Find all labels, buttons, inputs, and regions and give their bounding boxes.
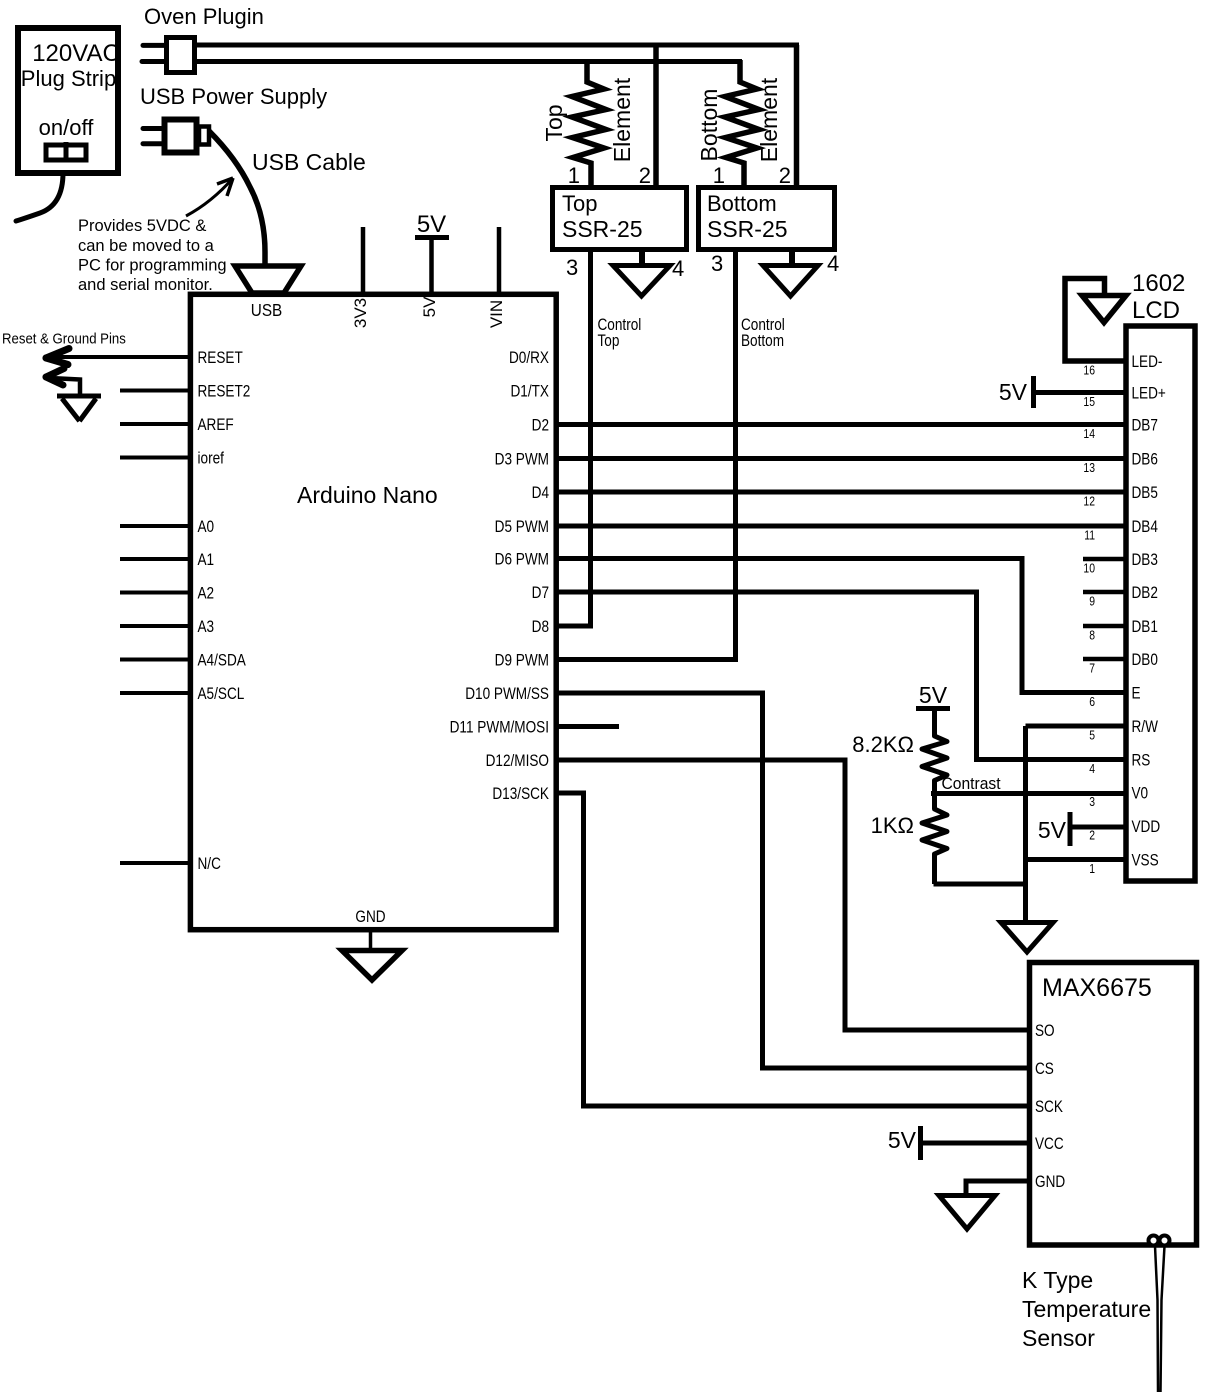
annotation arrow to USB cable — [186, 178, 233, 216]
LCD pin 8 number — [1089, 628, 1095, 642]
pin 3V3 — [351, 227, 370, 328]
wire D13 to MAX6675 SCK — [556, 793, 1032, 1106]
Top SSR pin 4 ground — [613, 250, 670, 296]
svg-text:8.2KΩ: 8.2KΩ — [852, 732, 914, 757]
svg-text:Provides 5VDC &: Provides 5VDC & — [78, 217, 206, 235]
MAX6675 pin label VCC — [1035, 1135, 1064, 1154]
svg-text:Plug Strip: Plug Strip — [21, 66, 116, 91]
svg-text:LED+: LED+ — [1132, 384, 1166, 403]
svg-text:10: 10 — [1083, 561, 1095, 575]
svg-text:D13/SCK: D13/SCK — [492, 785, 549, 804]
wire D10 to MAX6675 CS — [556, 693, 1032, 1068]
svg-text:12: 12 — [1083, 494, 1095, 508]
wire D9 to Bottom SSR pin 3 control — [556, 250, 736, 660]
LCD pin label E — [1132, 684, 1141, 703]
LCD pin 9 stub DB2 — [1083, 590, 1128, 595]
svg-text:A5/SCL: A5/SCL — [198, 685, 245, 704]
Top SSR pin number 1 — [568, 163, 580, 188]
svg-text:5: 5 — [1089, 728, 1095, 742]
svg-text:A2: A2 — [198, 584, 215, 603]
pin VIN — [487, 227, 506, 328]
svg-text:9: 9 — [1089, 594, 1095, 608]
svg-text:5V: 5V — [1038, 817, 1067, 843]
ground bus vertical R/W VSS — [1026, 726, 1129, 922]
svg-text:R/W: R/W — [1132, 718, 1159, 737]
svg-text:SO: SO — [1035, 1022, 1055, 1041]
pin D2 label — [532, 416, 549, 435]
svg-text:DB7: DB7 — [1132, 416, 1158, 435]
svg-text:D7: D7 — [532, 584, 549, 603]
USB power supply plug — [143, 120, 209, 153]
on/off switch — [46, 142, 86, 162]
pin A2 — [120, 584, 214, 603]
svg-text:1602: 1602 — [1132, 270, 1185, 297]
pin D8 label — [532, 618, 549, 637]
svg-text:GND: GND — [1035, 1173, 1065, 1192]
LCD pin 12 number — [1083, 494, 1095, 508]
MAX6675 ground symbol — [939, 1196, 995, 1230]
svg-text:A3: A3 — [198, 618, 215, 637]
LCD box — [1126, 326, 1195, 881]
Top SSR pin 2 wire — [653, 45, 659, 187]
GND pin label — [355, 908, 385, 949]
svg-text:AREF: AREF — [198, 416, 234, 435]
svg-text:14: 14 — [1083, 427, 1095, 441]
pin AREF — [120, 416, 234, 435]
LCD pin label R/W — [1132, 718, 1159, 737]
svg-text:DB2: DB2 — [1132, 584, 1158, 603]
svg-text:3: 3 — [566, 255, 578, 280]
wire D3 to LCD DB6 — [556, 456, 1128, 461]
LCD pin label DB2 — [1132, 584, 1158, 603]
MAX6675 pin label SCK — [1035, 1098, 1064, 1117]
LCD pin 11 number — [1084, 528, 1095, 542]
svg-text:Temperature: Temperature — [1022, 1296, 1151, 1322]
pin N/C — [120, 855, 221, 874]
svg-text:LCD: LCD — [1132, 297, 1180, 324]
LCD pin label DB6 — [1132, 450, 1158, 469]
svg-text:can be moved to a: can be moved to a — [78, 237, 215, 255]
pin D1/TX label — [511, 382, 549, 401]
svg-text:VCC: VCC — [1035, 1135, 1064, 1154]
120VAC plug strip box — [18, 28, 120, 173]
svg-text:Top: Top — [541, 104, 567, 141]
svg-text:2: 2 — [639, 163, 651, 188]
USB Power Supply label — [140, 84, 327, 109]
thermocouple probe wires — [1155, 1246, 1165, 1392]
svg-text:5V: 5V — [999, 379, 1028, 405]
wire 1K to ground bus — [934, 882, 1026, 887]
LCD pin 15 number — [1083, 395, 1095, 409]
LCD pin 10 stub DB3 — [1083, 557, 1128, 562]
pin RESET2 — [120, 382, 250, 401]
pin D5 PWM label — [495, 518, 549, 537]
svg-text:VDD: VDD — [1132, 818, 1161, 837]
pin D3 PWM label — [495, 450, 549, 469]
Control Top label — [598, 316, 642, 351]
ground arrow and symbol — [46, 369, 101, 422]
pin D11 PWM/MOSI label — [450, 718, 549, 737]
svg-text:DB1: DB1 — [1132, 618, 1158, 637]
resistor 1K ohm — [871, 794, 947, 885]
svg-text:13: 13 — [1083, 461, 1095, 475]
5V supply above contrast divider — [916, 682, 950, 709]
5V supply to VCC — [888, 1126, 1032, 1160]
LCD pin 9 number — [1089, 594, 1095, 608]
svg-text:ioref: ioref — [198, 449, 225, 468]
svg-text:DB0: DB0 — [1132, 651, 1158, 670]
resistor bottom heating element — [725, 60, 759, 186]
LCD pin label RS — [1132, 751, 1151, 770]
wire oven neutral (bottom) — [195, 59, 742, 64]
USB connector trapezoid — [235, 266, 301, 320]
oven plug — [142, 38, 195, 73]
svg-text:1: 1 — [568, 163, 580, 188]
pin ioref — [120, 449, 225, 468]
LCD pin label DB7 — [1132, 416, 1158, 435]
svg-text:USB: USB — [251, 300, 282, 320]
Top SSR pin number 3 — [566, 255, 578, 280]
svg-text:DB5: DB5 — [1132, 484, 1158, 503]
wire D5 to LCD DB4 — [556, 524, 1128, 529]
Arduino Nano box U1 — [190, 294, 556, 929]
LCD bottom ground symbol — [1001, 923, 1053, 953]
Oven Plugin label — [144, 4, 264, 29]
svg-text:N/C: N/C — [198, 855, 221, 874]
USB cable — [209, 131, 265, 290]
Contrast label — [942, 774, 1002, 793]
pin 5V with 5V supply — [415, 211, 449, 317]
MAX6675 box U2 — [1030, 963, 1197, 1246]
svg-text:PC for programming: PC for programming — [78, 257, 227, 275]
USB Cable label — [252, 149, 366, 175]
svg-text:5V: 5V — [888, 1127, 917, 1153]
LCD pin label DB1 — [1132, 618, 1158, 637]
pin A4/SDA — [120, 651, 246, 670]
svg-text:4: 4 — [672, 256, 684, 281]
svg-text:Oven Plugin: Oven Plugin — [144, 4, 264, 29]
wire D6 to LCD E — [556, 559, 1128, 693]
svg-text:5V: 5V — [417, 211, 446, 238]
resistor 8.2K ohm — [852, 711, 947, 797]
pin A0 — [120, 518, 214, 537]
wire D2 to LCD DB7 — [556, 422, 1128, 427]
LCD pin 6 number — [1089, 695, 1095, 709]
Top SSR pin number 2 — [639, 163, 651, 188]
svg-text:USB Cable: USB Cable — [252, 149, 366, 175]
LCD top ground symbol — [1082, 296, 1126, 323]
LCD pin 7 number — [1089, 661, 1095, 675]
LCD pin label VSS — [1132, 851, 1159, 870]
MAX6675 ground wire — [966, 1181, 1032, 1195]
pin A1 — [120, 551, 214, 570]
svg-text:DB4: DB4 — [1132, 518, 1159, 537]
LCD pin 14 number — [1083, 427, 1095, 441]
pin D10 PWM/SS label — [465, 685, 549, 704]
wire D12 to MAX6675 SO — [556, 760, 1032, 1030]
LCD pin 10 number — [1083, 561, 1095, 575]
svg-text:3V3: 3V3 — [351, 298, 370, 328]
svg-text:1: 1 — [713, 163, 725, 188]
K Type Temperature Sensor label — [1022, 1267, 1151, 1351]
svg-text:5V: 5V — [420, 296, 439, 317]
thermocouple terminals — [1149, 1236, 1170, 1246]
reset arrow — [46, 349, 188, 365]
LCD pin label LED- — [1132, 353, 1163, 372]
pin D4 label — [532, 484, 550, 503]
svg-text:VSS: VSS — [1132, 851, 1159, 870]
LCD pin 1 number — [1089, 862, 1095, 876]
svg-text:A1: A1 — [198, 551, 215, 570]
svg-text:1: 1 — [1089, 862, 1095, 876]
svg-text:RS: RS — [1132, 751, 1151, 770]
Arduino ground symbol — [342, 951, 402, 981]
1602 LCD label — [1132, 270, 1185, 324]
svg-text:Element: Element — [609, 77, 635, 162]
Bottom label rotated — [696, 89, 722, 162]
wire D4 to LCD DB5 — [556, 490, 1128, 495]
pin D0/RX label — [509, 349, 549, 368]
svg-text:1KΩ: 1KΩ — [871, 813, 914, 838]
Top label rotated — [541, 104, 567, 141]
MAX6675 pin label SO — [1035, 1022, 1055, 1041]
MAX6675 pin label CS — [1035, 1060, 1054, 1079]
svg-text:Reset & Ground Pins: Reset & Ground Pins — [2, 330, 126, 347]
svg-text:MAX6675: MAX6675 — [1042, 974, 1152, 1002]
Bottom SSR pin number 4 — [827, 251, 839, 276]
svg-text:4: 4 — [827, 251, 839, 276]
Bottom SSR pin number 1 — [713, 163, 725, 188]
LCD pin label VDD — [1132, 818, 1161, 837]
MAX6675 pin label GND — [1035, 1173, 1065, 1192]
svg-text:DB6: DB6 — [1132, 450, 1158, 469]
svg-text:D1/TX: D1/TX — [511, 382, 549, 401]
wire oven hot (top) — [195, 43, 799, 48]
svg-text:RESET: RESET — [198, 349, 244, 368]
LCD pin label DB0 — [1132, 651, 1158, 670]
svg-text:Arduino Nano: Arduino Nano — [297, 482, 438, 508]
svg-text:120VAC: 120VAC — [32, 40, 120, 67]
Bottom SSR pin 2 wire — [794, 45, 800, 187]
LCD pin label LED+ — [1132, 384, 1166, 403]
Bottom SSR pin 4 ground — [763, 250, 818, 296]
LCD pin 2 number — [1089, 828, 1095, 842]
svg-text:D8: D8 — [532, 618, 549, 637]
pin D6 PWM label — [495, 550, 549, 569]
Top SSR-25 box — [553, 188, 687, 250]
svg-text:SSR-25: SSR-25 — [707, 216, 788, 242]
svg-text:K Type: K Type — [1022, 1267, 1093, 1293]
wire stub D11 — [556, 724, 619, 729]
svg-text:and serial monitor.: and serial monitor. — [78, 276, 213, 294]
svg-text:Sensor: Sensor — [1022, 1325, 1095, 1351]
svg-text:3: 3 — [711, 251, 723, 276]
svg-text:VIN: VIN — [487, 300, 506, 328]
pin A5/SCL — [120, 685, 245, 704]
wire D8 to Top SSR pin 3 control — [556, 250, 591, 626]
svg-text:RESET2: RESET2 — [198, 382, 251, 401]
LCD pin 7 stub DB0 — [1083, 657, 1128, 662]
wire D7 to LCD RS — [556, 592, 1128, 760]
svg-text:A4/SDA: A4/SDA — [198, 651, 247, 670]
LCD pin label DB3 — [1132, 551, 1158, 570]
svg-text:2: 2 — [779, 163, 791, 188]
svg-text:Contrast: Contrast — [942, 774, 1002, 793]
svg-text:LED-: LED- — [1132, 353, 1163, 372]
svg-text:8: 8 — [1089, 628, 1095, 642]
LCD pin 5 number — [1089, 728, 1095, 742]
LCD ground wire from LED- — [1065, 279, 1126, 362]
svg-text:DB3: DB3 — [1132, 551, 1158, 570]
Control Bottom label — [741, 316, 785, 351]
svg-text:D10 PWM/SS: D10 PWM/SS — [465, 685, 549, 704]
LCD pin 8 stub DB1 — [1083, 624, 1128, 629]
svg-text:7: 7 — [1089, 661, 1095, 675]
svg-text:Bottom: Bottom — [696, 89, 722, 162]
svg-text:D12/MISO: D12/MISO — [486, 752, 549, 771]
svg-text:6: 6 — [1089, 695, 1095, 709]
svg-text:5V: 5V — [919, 682, 948, 708]
LCD pin 3 number — [1089, 795, 1095, 809]
svg-text:D0/RX: D0/RX — [509, 349, 549, 368]
LCD pin 16 number — [1083, 363, 1095, 377]
pin D13/SCK label — [492, 785, 549, 804]
pin RESET — [198, 349, 244, 368]
LCD pin 13 number — [1083, 461, 1095, 475]
svg-text:A0: A0 — [198, 518, 215, 537]
svg-text:4: 4 — [1089, 762, 1095, 776]
Reset & Ground Pins label — [2, 330, 126, 347]
svg-text:CS: CS — [1035, 1060, 1054, 1079]
svg-text:E: E — [1132, 684, 1141, 703]
svg-text:GND: GND — [355, 908, 385, 927]
wire V0 contrast — [931, 791, 1128, 796]
LCD pin label V0 — [1132, 784, 1149, 803]
svg-text:Bottom: Bottom — [707, 191, 777, 216]
note text provides 5VDC — [78, 217, 227, 294]
Bottom SSR pin number 2 — [779, 163, 791, 188]
svg-text:SCK: SCK — [1035, 1098, 1064, 1117]
5V supply to VDD — [1038, 812, 1128, 846]
pin D7 label — [532, 584, 549, 603]
svg-text:D4: D4 — [532, 484, 550, 503]
svg-text:2: 2 — [1089, 828, 1095, 842]
svg-text:15: 15 — [1083, 395, 1095, 409]
pin A3 — [120, 618, 214, 637]
LCD pin label DB4 — [1132, 518, 1159, 537]
Element label rotated (top) — [609, 77, 635, 162]
svg-text:V0: V0 — [1132, 784, 1149, 803]
svg-text:SSR-25: SSR-25 — [562, 216, 643, 242]
5V supply to LED+ — [999, 376, 1128, 408]
svg-text:Top: Top — [598, 332, 620, 351]
svg-text:on/off: on/off — [39, 115, 95, 140]
svg-text:16: 16 — [1083, 363, 1095, 377]
svg-text:Element: Element — [756, 77, 782, 162]
svg-text:Top: Top — [562, 191, 597, 216]
LCD pin label DB5 — [1132, 484, 1158, 503]
svg-text:D3 PWM: D3 PWM — [495, 450, 549, 469]
resistor top heating element — [572, 60, 606, 186]
svg-text:D5 PWM: D5 PWM — [495, 518, 549, 537]
svg-text:11: 11 — [1084, 528, 1095, 542]
Element label rotated (bottom) — [756, 77, 782, 162]
LCD pin 4 number — [1089, 762, 1095, 776]
Top SSR pin number 4 — [672, 256, 684, 281]
svg-text:D2: D2 — [532, 416, 549, 435]
power cord from plug strip — [16, 173, 63, 221]
svg-text:D9 PWM: D9 PWM — [495, 651, 549, 670]
svg-text:USB Power Supply: USB Power Supply — [140, 84, 327, 109]
svg-text:3: 3 — [1089, 795, 1095, 809]
pin D12/MISO label — [486, 752, 549, 771]
svg-text:D6 PWM: D6 PWM — [495, 550, 549, 569]
svg-text:Bottom: Bottom — [741, 332, 784, 351]
svg-text:D11 PWM/MOSI: D11 PWM/MOSI — [450, 718, 549, 737]
Bottom SSR pin number 3 — [711, 251, 723, 276]
Bottom SSR-25 box — [699, 188, 835, 250]
pin D9 PWM label — [495, 651, 549, 670]
